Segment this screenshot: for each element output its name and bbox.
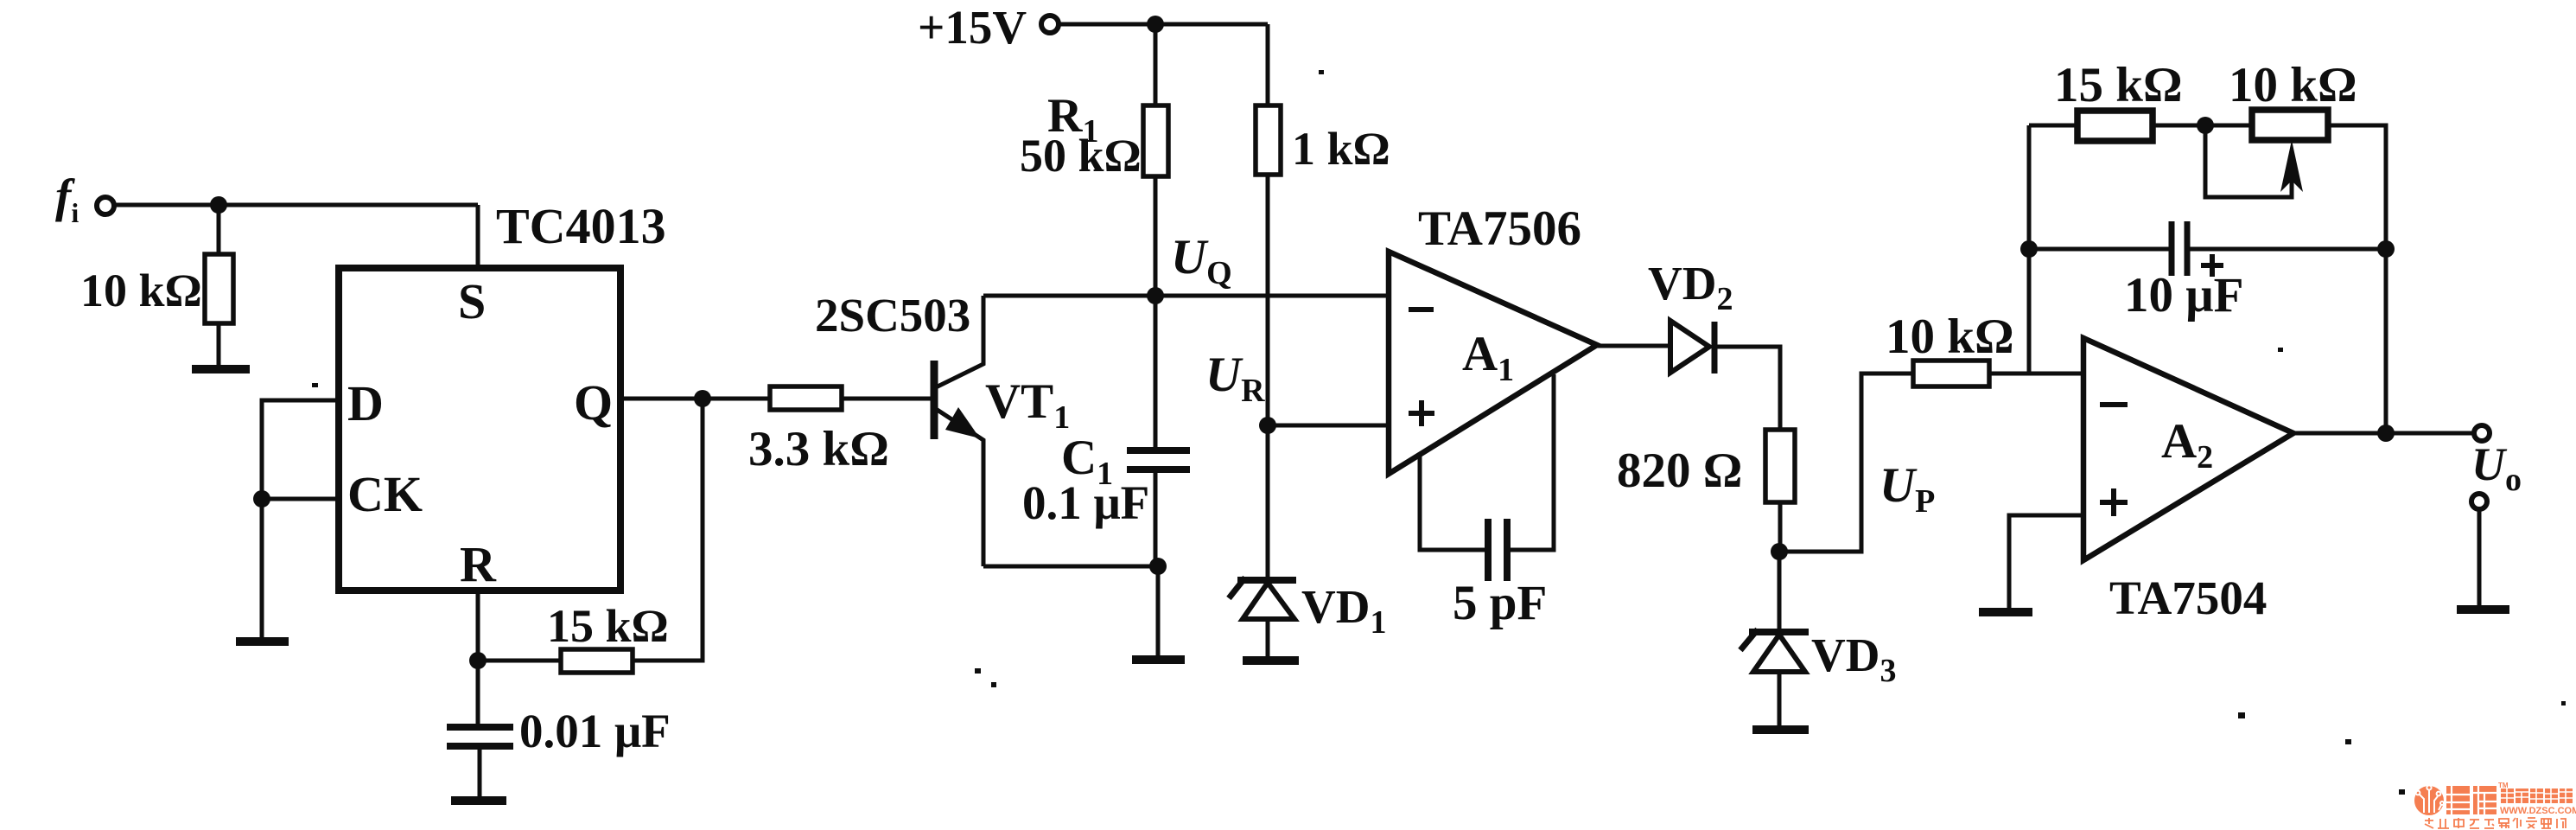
svg-text:10 kΩ: 10 kΩ (1886, 310, 2014, 364)
ground (A2 plus) (1979, 608, 2032, 616)
junction UR (1259, 417, 1276, 434)
wire 1k down to UR node (1266, 175, 1270, 425)
scan speck (975, 668, 981, 674)
wire emitter to C1 bottom (983, 565, 1158, 569)
wire A1 lower edge to 5pF (1420, 455, 1486, 550)
scan speck (1319, 70, 1324, 74)
svg-text:D: D (347, 375, 384, 431)
wire pot to right vertical (2328, 125, 2386, 432)
junction R node (469, 652, 487, 669)
flip-flop TC4013 box (339, 268, 620, 591)
diode VD2 triangle (1670, 321, 1709, 373)
wire R down (476, 591, 480, 725)
wire UP node to VD3 (1778, 552, 1782, 629)
junction emitter / C1 (1149, 558, 1167, 575)
svg-text:TA7506: TA7506 (1418, 201, 1581, 256)
wire UQ to C1 (1154, 296, 1158, 449)
svg-text:TA7504: TA7504 (2109, 571, 2267, 624)
svg-text:15 kΩ: 15 kΩ (2054, 58, 2183, 112)
transistor VT1 emitter (936, 409, 983, 566)
watermark 电子市场网 (block glyphs) (2501, 788, 2573, 803)
diode VD2 cathode bar (1712, 322, 1718, 373)
terminal Uo upper (2474, 425, 2490, 441)
wire R node to 15k (478, 659, 561, 663)
svg-text:3.3 kΩ: 3.3 kΩ (748, 422, 889, 476)
junction 15k / pot wiper (2197, 117, 2214, 134)
ground (VD3) (1752, 725, 1809, 734)
wire S drop (476, 205, 480, 268)
wire D to CK loop (262, 400, 339, 499)
junction UP node (1771, 543, 1788, 560)
scan speck (2561, 701, 2566, 705)
svg-text:1 kΩ: 1 kΩ (1292, 123, 1390, 175)
wire Q output (620, 397, 770, 401)
junction f_i / 10k (210, 196, 227, 214)
junction feedback left / 10uF (2020, 240, 2038, 258)
wire A1 output to VD2 (1597, 344, 1670, 348)
wire f_i to S corner (115, 203, 478, 207)
wire VD3 to ground (1778, 672, 1782, 726)
svg-text:10 kΩ: 10 kΩ (80, 265, 202, 316)
resistor 3.3 kOhm (770, 386, 842, 410)
A1 minus sign (1409, 307, 1434, 312)
zener diode VD3 cathode bar (1749, 629, 1809, 635)
scan speck (2399, 789, 2405, 795)
wire 10k to A2 minus (1989, 372, 2083, 376)
wire CK junction to ground (260, 499, 264, 638)
svg-text:0.01 μF: 0.01 μF (519, 705, 671, 757)
resistor R1 50 kOhm (1143, 105, 1168, 176)
wire A2 output (2293, 431, 2472, 436)
scan speck (991, 682, 996, 687)
capacitor 10uF left wire (2029, 247, 2170, 252)
wire cap to ground (478, 746, 482, 797)
ground (VD1) (1243, 656, 1299, 665)
op-amp A2 triangle (2083, 338, 2293, 560)
capacitor 0.01uF plates (447, 724, 513, 731)
transistor VT1 base bar (931, 361, 938, 439)
svg-text:TC4013: TC4013 (496, 198, 666, 254)
wire 820 to UP node (1778, 502, 1783, 552)
transistor VT1 emitter arrow (945, 407, 980, 438)
junction +15V / R1 (1147, 16, 1164, 33)
svg-text:+15V: +15V (918, 1, 1027, 54)
capacitor 10uF plates (2169, 221, 2175, 276)
potentiometer 10 kOhm body (2252, 110, 2328, 140)
resistor 820 Ohm (1765, 430, 1795, 502)
pot wiper arrow (2280, 140, 2303, 192)
wire VD2 to 820 (1714, 347, 1780, 430)
capacitor 10uF right wire (2190, 247, 2386, 252)
junction right vertical / 10uF (2377, 240, 2395, 258)
wire 3.3k to base (842, 397, 932, 401)
10uF plus sign (2201, 263, 2223, 268)
wire +15V rail (1059, 22, 1268, 27)
wire feedback top to 15k (2029, 124, 2077, 128)
watermark logo circle (2414, 785, 2444, 815)
wire rail down to 1k (1266, 24, 1270, 105)
wire C1 to bottom junction (1154, 469, 1158, 566)
wire C1 bottom to ground (1156, 566, 1161, 656)
resistor 10 kOhm (A2 input) (1913, 361, 1989, 386)
pot wiper wire (2205, 125, 2292, 197)
junction D-CK (253, 490, 270, 508)
svg-text:820 Ω: 820 Ω (1617, 444, 1742, 498)
svg-text:R: R (460, 536, 497, 592)
wire UR down to VD1 (1266, 425, 1270, 578)
wire UP to 10k (1779, 373, 1913, 552)
wire UQ net to A1 minus input (983, 294, 1389, 298)
scan speck (312, 383, 318, 387)
terminal f_i (97, 197, 114, 214)
A1 plus sign (1409, 411, 1434, 416)
resistor 15 kOhm (R feedback) (561, 649, 633, 673)
svg-text:WWW.DZSC.COM: WWW.DZSC.COM (2500, 806, 2576, 816)
wire A2 plus to ground (2009, 515, 2083, 609)
A2 minus sign (2100, 402, 2128, 407)
op-amp A1 triangle (1389, 252, 1597, 474)
ground (CK) (236, 637, 289, 646)
svg-text:CK: CK (347, 466, 423, 522)
junction UQ (1147, 287, 1164, 304)
wire junction down to resistor (217, 205, 221, 254)
svg-text:15 kΩ: 15 kΩ (547, 600, 669, 652)
scan speck (2278, 348, 2283, 352)
terminal +15V (1041, 16, 1059, 33)
transistor VT1 collector (936, 296, 983, 387)
svg-text:0.1 μF: 0.1 μF (1022, 476, 1149, 529)
ground (0.01uF) (451, 796, 506, 805)
zener VD1 triangle (1243, 583, 1294, 619)
resistor 15 kOhm (feedback) (2077, 111, 2153, 141)
scan speck (2345, 739, 2351, 744)
terminal Uo lower (2471, 494, 2487, 509)
svg-text:2SC503: 2SC503 (815, 289, 970, 342)
resistor 10 kOhm (input) (205, 254, 233, 323)
svg-text:5 pF: 5 pF (1453, 576, 1547, 630)
svg-text:S: S (458, 273, 486, 329)
zener VD3 triangle (1753, 635, 1805, 672)
wire resistor to ground (217, 323, 221, 366)
zener VD1 bent tick (1229, 578, 1245, 598)
wire feedback left vertical (2027, 125, 2032, 373)
ground (C1/emitter) (1132, 655, 1185, 664)
capacitor 5 pF plates (1485, 519, 1492, 581)
wire VD1 to ground (1266, 619, 1270, 657)
zener diode VD1 cathode bar (1237, 577, 1296, 584)
svg-text:10 μF: 10 μF (2124, 268, 2243, 322)
wire rail down to R1 (1154, 24, 1158, 105)
resistor 1 kOhm (1256, 105, 1281, 175)
scan speck (2238, 712, 2245, 718)
svg-text:50 kΩ: 50 kΩ (1020, 130, 1142, 182)
junction output / feedback (2377, 425, 2395, 442)
junction Q / feedback (694, 390, 711, 407)
wire R1 to UQ node (1154, 176, 1158, 296)
ground (input divider) (192, 365, 250, 373)
wire 5pF to A1 edge (1509, 374, 1554, 550)
wire UR to A1 plus input (1268, 424, 1389, 428)
wire Uo lower to ground (2477, 509, 2482, 606)
wire 15k to Q column (633, 399, 703, 661)
wire 15k to pot (2153, 124, 2252, 128)
svg-text:Q: Q (574, 374, 613, 431)
svg-text:TM: TM (2498, 782, 2509, 789)
watermark brand 维库 (block glyphs) (2446, 786, 2496, 814)
watermark slogan 专业电子元器件交易网站 (block glyphs) (2425, 818, 2566, 828)
capacitor C1 plates (1127, 447, 1190, 454)
svg-text:10 kΩ: 10 kΩ (2229, 58, 2357, 112)
A2 plus sign (2100, 500, 2128, 505)
ground (Uo) (2457, 605, 2509, 614)
zener VD3 bent tick (1740, 629, 1758, 650)
